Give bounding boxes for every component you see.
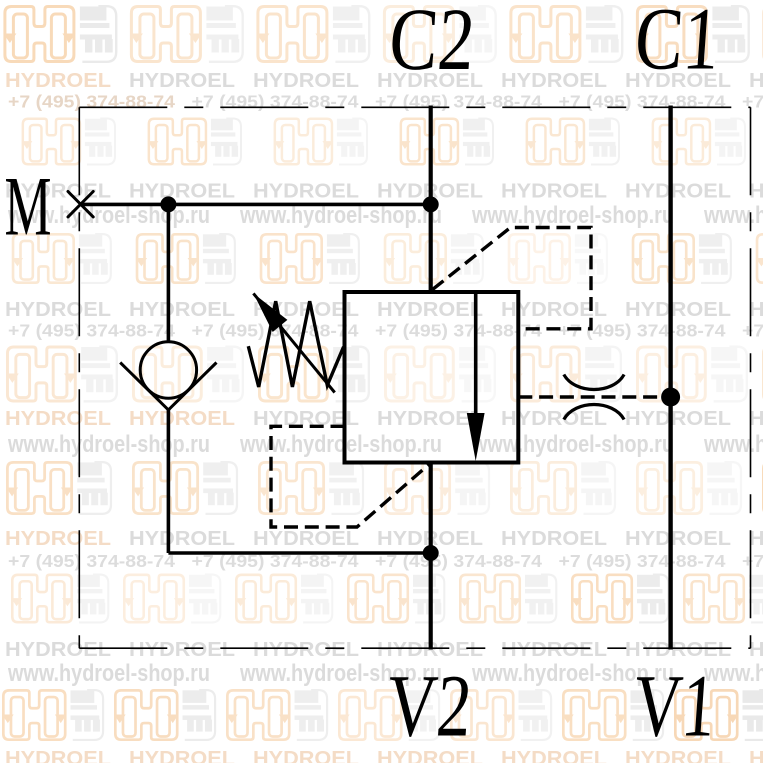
svg-text:HYDROEL: HYDROEL: [253, 527, 359, 550]
svg-text:HYDROEL: HYDROEL: [253, 180, 359, 203]
junction node pilot/C1: [661, 388, 680, 407]
svg-text:HYDROEL: HYDROEL: [377, 407, 483, 430]
svg-text:HYDROEL: HYDROEL: [5, 527, 111, 550]
svg-text:www.hydroel-shop.ru: www.hydroel-shop.ru: [471, 431, 674, 458]
wire bottom to V2 line: [168, 551, 430, 555]
svg-text:C1: C1: [632, 0, 723, 88]
svg-text:HYDROEL: HYDROEL: [749, 69, 763, 92]
check valve CV1 ball: [140, 342, 196, 398]
svg-text:HYDROEL: HYDROEL: [129, 180, 235, 203]
spring: [248, 301, 343, 387]
pilot line lower loop: [271, 426, 431, 527]
svg-text:www.hydroel-shop.ru: www.hydroel-shop.ru: [7, 431, 210, 458]
enclosure dash-dot border: [79, 107, 750, 648]
svg-text:+7 (495) 374-88-74: +7 (495) 374-88-74: [742, 551, 763, 571]
wire branch to check valve: [167, 204, 171, 341]
svg-text:HYDROEL: HYDROEL: [625, 298, 731, 321]
svg-text:HYDROEL: HYDROEL: [253, 747, 359, 763]
svg-text:+7 (495) 374-88-74: +7 (495) 374-88-74: [375, 92, 542, 112]
svg-text:HYDROEL: HYDROEL: [749, 747, 763, 763]
svg-text:HYDROEL: HYDROEL: [129, 298, 235, 321]
relief valve body U1: [345, 292, 519, 463]
svg-text:www.hydroel-shop.ru: www.hydroel-shop.ru: [703, 202, 763, 229]
svg-text:HYDROEL: HYDROEL: [501, 747, 607, 763]
svg-text:HYDROEL: HYDROEL: [5, 407, 111, 430]
svg-text:HYDROEL: HYDROEL: [501, 180, 607, 203]
svg-text:HYDROEL: HYDROEL: [625, 407, 731, 430]
svg-text:HYDROEL: HYDROEL: [129, 69, 235, 92]
wire M to C2 line: [81, 203, 431, 207]
orifice bottom arc: [564, 405, 624, 420]
svg-text:HYDROEL: HYDROEL: [501, 69, 607, 92]
svg-text:HYDROEL: HYDROEL: [5, 298, 111, 321]
junction node bottom V2: [423, 545, 439, 561]
svg-text:HYDROEL: HYDROEL: [5, 747, 111, 763]
svg-text:HYDROEL: HYDROEL: [129, 527, 235, 550]
svg-text:+7 (495) 374-88-74: +7 (495) 374-88-74: [742, 92, 763, 112]
svg-text:+7 (495) 374-88-74: +7 (495) 374-88-74: [192, 92, 359, 112]
svg-text:HYDROEL: HYDROEL: [5, 69, 111, 92]
svg-text:+7 (495) 374-88-74: +7 (495) 374-88-74: [559, 321, 726, 341]
svg-text:www.hydroel-shop.ru: www.hydroel-shop.ru: [703, 431, 763, 458]
svg-text:HYDROEL: HYDROEL: [129, 747, 235, 763]
plugged port X at M: [68, 192, 93, 217]
svg-text:+7 (495) 374-88-74: +7 (495) 374-88-74: [8, 321, 175, 341]
svg-text:V2: V2: [384, 658, 475, 756]
relief valve flow arrow: [467, 413, 485, 461]
svg-text:HYDROEL: HYDROEL: [253, 638, 359, 661]
junction node at M branch: [160, 196, 176, 212]
svg-text:+7 (495) 374-88-74: +7 (495) 374-88-74: [8, 551, 175, 571]
wire C2 down to valve box: [429, 106, 433, 293]
svg-text:+7 (495) 374-88-74: +7 (495) 374-88-74: [8, 92, 175, 112]
svg-text:HYDROEL: HYDROEL: [5, 638, 111, 661]
wire check valve to bottom: [167, 409, 171, 553]
svg-text:www.hydroel-shop.ru: www.hydroel-shop.ru: [471, 202, 674, 229]
svg-text:www.hydroel-shop.ru: www.hydroel-shop.ru: [7, 660, 210, 687]
svg-text:C2: C2: [386, 0, 478, 89]
relief valve flow path: [474, 294, 478, 430]
adjustment arrow head: [253, 293, 287, 332]
svg-text:+7 (495) 374-88-74: +7 (495) 374-88-74: [559, 92, 726, 112]
svg-text:HYDROEL: HYDROEL: [129, 407, 235, 430]
svg-text:HYDROEL: HYDROEL: [253, 69, 359, 92]
pilot line to C1 through orifice: [518, 395, 670, 398]
svg-text:HYDROEL: HYDROEL: [625, 180, 731, 203]
svg-text:HYDROEL: HYDROEL: [129, 638, 235, 661]
wire C1 to V1: [668, 106, 672, 650]
svg-text:HYDROEL: HYDROEL: [377, 298, 483, 321]
adjustment arrow shaft: [253, 293, 334, 392]
svg-text:HYDROEL: HYDROEL: [501, 527, 607, 550]
orifice top arc: [564, 375, 624, 390]
wire valve box down to V2: [429, 463, 433, 650]
junction node M/C2: [423, 196, 439, 212]
svg-text:HYDROEL: HYDROEL: [501, 638, 607, 661]
svg-text:+7 (495) 374-88-74: +7 (495) 374-88-74: [742, 321, 763, 341]
svg-text:V1: V1: [631, 657, 719, 755]
svg-text:HYDROEL: HYDROEL: [625, 527, 731, 550]
svg-text:+7 (495) 374-88-74: +7 (495) 374-88-74: [559, 551, 726, 571]
pilot line upper loop: [433, 228, 592, 329]
svg-text:M: M: [5, 159, 52, 253]
check valve CV1 seat: [120, 363, 216, 410]
